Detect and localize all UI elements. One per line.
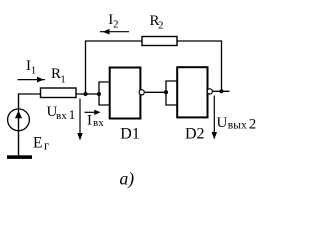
node: feedback tap junction bbox=[84, 92, 88, 96]
svg-text:Е: Е bbox=[33, 134, 42, 151]
node: D1 input junction bbox=[97, 92, 101, 96]
D1 output inversion bubble bbox=[139, 90, 144, 95]
arrow Ivx (current into D1, right) bbox=[85, 110, 101, 115]
svg-text:вых: вых bbox=[228, 120, 247, 132]
svg-text:1: 1 bbox=[69, 107, 76, 122]
resistor R2 bbox=[142, 37, 177, 46]
resistor R1 bbox=[41, 88, 77, 98]
D2 output inversion bubble bbox=[207, 89, 212, 94]
current source EG circle bbox=[8, 109, 30, 131]
svg-text:U: U bbox=[217, 115, 228, 131]
arrow I2 (current direction left) bbox=[100, 29, 129, 35]
ground bbox=[7, 155, 32, 159]
svg-text:вх: вх bbox=[56, 110, 67, 122]
svg-text:D1: D1 bbox=[120, 126, 140, 143]
wire: feedback top rail right of R2 bbox=[177, 40, 222, 42]
svg-text:г: г bbox=[44, 139, 49, 153]
wire: source vertical through circle to ground bbox=[18, 93, 20, 156]
svg-text:2: 2 bbox=[113, 19, 119, 31]
wire: feedback right vertical down to output node bbox=[221, 40, 223, 91]
node: output junction bbox=[220, 89, 224, 93]
arrow Uvx1 (voltage, down) bbox=[77, 99, 82, 141]
svg-text:а): а) bbox=[120, 169, 135, 189]
svg-text:1: 1 bbox=[60, 74, 66, 86]
wire: D1 output to D2 input bbox=[144, 91, 166, 93]
logic gate D2 body bbox=[177, 67, 207, 117]
svg-text:2: 2 bbox=[158, 20, 164, 32]
wire: R1 output to gate D1 input node bbox=[76, 93, 99, 95]
node: D2 input junction bbox=[164, 90, 168, 94]
wire: main input rail from source to R1 bbox=[19, 93, 41, 95]
svg-text:вх: вх bbox=[93, 117, 104, 129]
svg-text:I: I bbox=[87, 113, 92, 129]
arrow Uvyx2 (voltage, down) bbox=[212, 96, 217, 140]
svg-text:1: 1 bbox=[31, 65, 37, 77]
arrow I1 (current direction right) bbox=[18, 77, 46, 83]
current source arrow (up) bbox=[15, 111, 22, 119]
gate D1 input bracket (tied inputs) bbox=[99, 82, 110, 105]
wire: feedback left vertical bbox=[85, 41, 87, 94]
wire: D2 output stub bbox=[212, 90, 229, 92]
logic gate D1 body bbox=[110, 68, 141, 119]
svg-text:2: 2 bbox=[249, 117, 256, 133]
wire: feedback top rail left of R2 bbox=[85, 40, 142, 42]
gate D2 input bracket (tied inputs) bbox=[166, 81, 178, 105]
svg-text:D2: D2 bbox=[185, 125, 205, 142]
